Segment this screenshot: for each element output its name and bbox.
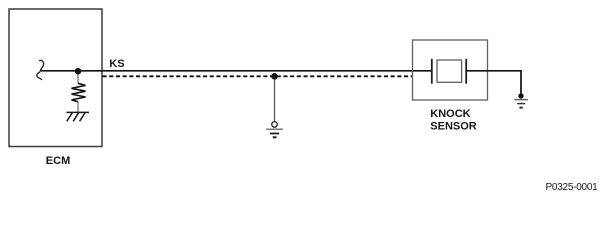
svg-text:P0325-0001: P0325-0001 — [546, 182, 599, 193]
wire resistor top lead — [77, 71, 79, 84]
svg-text:SENSOR: SENSOR — [430, 120, 477, 132]
wire shield to ground — [274, 76, 276, 121]
svg-text:KNOCK: KNOCK — [430, 108, 470, 120]
ECM box — [9, 9, 102, 147]
earth ground (sensor case) — [514, 100, 528, 108]
svg-text:ECM: ECM — [46, 155, 70, 167]
shield ground terminal circle — [272, 122, 278, 128]
piezo element crystal square — [437, 60, 462, 82]
earth ground (shield) — [266, 129, 283, 137]
shield junction dot — [271, 73, 278, 80]
node junction dot in ECM — [75, 68, 82, 75]
shield (dashed line) — [103, 75, 413, 77]
wire resistor bottom lead — [77, 102, 79, 113]
wire sensor output to ground — [466, 71, 521, 94]
svg-text:KS: KS — [109, 58, 124, 70]
piezo element left plate — [431, 59, 433, 84]
chassis ground (ECM internal) — [67, 112, 90, 121]
knock sensor box — [413, 40, 488, 100]
ground terminal dot (sensor case) — [518, 93, 523, 98]
piezo element right plate — [465, 59, 467, 84]
resistor (ECM internal) — [72, 83, 86, 102]
wire continuation squiggle — [37, 60, 44, 80]
wire KS signal (solid, ECM to knock sensor) — [41, 70, 432, 72]
